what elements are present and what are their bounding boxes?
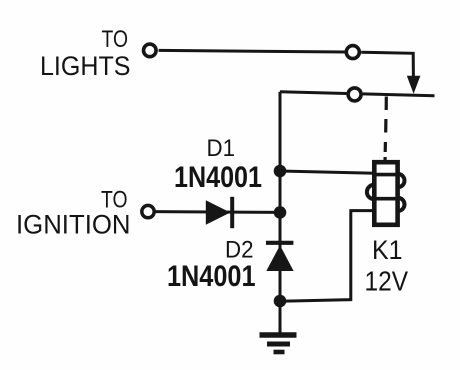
ground symbol bar 3 (274, 350, 285, 355)
switch movable contact arrow (relay contact arm) (407, 76, 421, 94)
wire lower switch line (common) (280, 92, 347, 94)
svg-text:1N4001: 1N4001 (167, 260, 256, 293)
relay coil right bump 2 (398, 198, 405, 211)
node junction middle (D1 cathode) (274, 206, 287, 219)
svg-text:K1: K1 (372, 235, 403, 265)
svg-text:12V: 12V (365, 266, 409, 297)
relay coil internal line 1 (374, 173, 397, 177)
diode D1 cathode bar (230, 197, 234, 228)
ground symbol bar 2 (267, 342, 290, 347)
relay coil internal line 2 (374, 197, 397, 201)
relay K1 coil body rectangle (374, 162, 397, 225)
terminal circle TO LIGHTS (144, 44, 157, 57)
wire ignition terminal to D1 anode (154, 210, 280, 214)
node junction upper (bus to relay coil top) (274, 165, 287, 178)
svg-text:IGNITION: IGNITION (16, 210, 131, 240)
terminal circle TO IGNITION (142, 205, 154, 217)
wire top line left segment (159, 50, 346, 52)
ground symbol bar 1 (260, 332, 297, 338)
diode D2 cathode bar (266, 241, 293, 245)
wire top line right segment to corner and down (361, 52, 413, 78)
diode D2 triangle (266, 245, 293, 271)
svg-text:TO: TO (102, 26, 129, 53)
relay coil left bump (367, 185, 374, 199)
wire node to relay coil upper terminal (280, 171, 375, 173)
relay coil right bump 1 (398, 174, 405, 187)
wire vertical bus from switch common down to ground (279, 92, 282, 333)
svg-text:LIGHTS: LIGHTS (40, 51, 131, 81)
diode D1 triangle (206, 200, 231, 225)
dashed mechanical link switch to relay (385, 97, 386, 164)
switch contact circle upper (lights feed) (346, 46, 359, 59)
wire lower switch line right of circle (363, 94, 435, 96)
svg-text:D1: D1 (207, 135, 236, 162)
switch contact circle lower (348, 88, 361, 101)
wire ground node to relay coil lower terminal (280, 211, 375, 302)
svg-text:1N4001: 1N4001 (174, 161, 262, 194)
node junction lower (ground node) (274, 295, 287, 308)
